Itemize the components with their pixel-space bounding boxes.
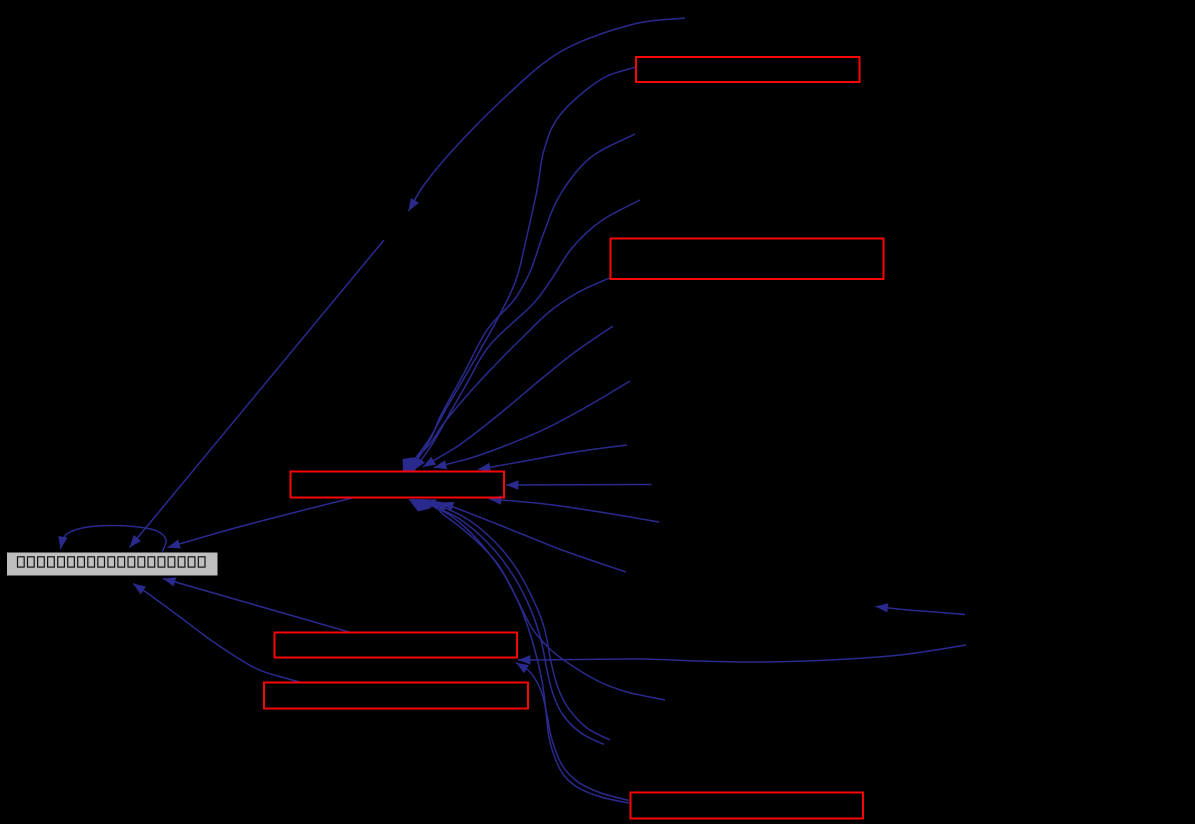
edge box5 -> gray node	[133, 584, 304, 684]
node box2	[611, 239, 884, 280]
edge hub -> gray node	[168, 498, 353, 548]
arrowhead blob hub bottom	[409, 499, 438, 512]
node box5	[264, 683, 528, 709]
gray current node	[7, 552, 219, 576]
arrowhead blob hub top	[403, 458, 416, 472]
edge n9 -> hub bottom	[441, 503, 626, 573]
edge right node2 -> R1	[876, 607, 966, 615]
edge n8 -> hub lower right	[489, 499, 659, 522]
node box1	[636, 57, 860, 82]
edge box1 -> hub	[406, 67, 636, 470]
edge n2 -> hub	[410, 134, 635, 470]
edge n5 -> hub	[434, 381, 630, 468]
edge n7 -> hub horizontal	[506, 484, 652, 487]
edge n665 -> hub	[435, 502, 665, 701]
edge n6 -> hub shallow	[478, 445, 627, 470]
tofu glyph row	[18, 557, 206, 567]
edge box6 -> hub	[412, 500, 629, 804]
edge n4 -> hub	[423, 326, 613, 467]
edge self-loop on gray node	[61, 526, 167, 553]
edge nb1 -> hub	[418, 500, 604, 745]
node box6	[631, 793, 864, 819]
edge n3 -> hub	[414, 200, 640, 470]
edge top node -> N1	[409, 18, 686, 211]
node box4	[275, 633, 518, 658]
node hub box3	[291, 472, 505, 498]
edge N1 -> gray node	[130, 240, 385, 548]
edge nb -> box4 hook	[516, 663, 629, 801]
edge box4 -> gray node	[163, 579, 353, 634]
edge right node -> box4 swoop	[518, 645, 966, 662]
edge box2 -> hub	[403, 278, 611, 471]
edge nb2 -> hub	[428, 501, 610, 740]
